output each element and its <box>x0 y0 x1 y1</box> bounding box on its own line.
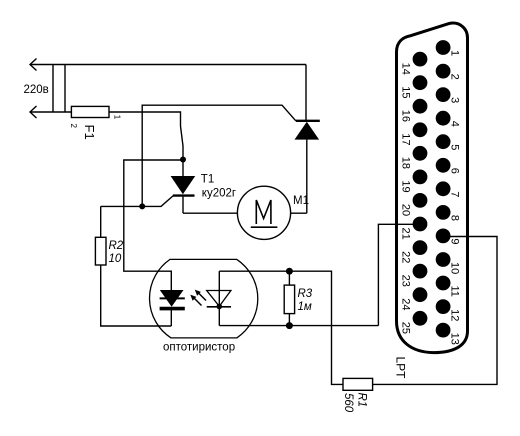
node: R3 top <box>286 268 293 275</box>
thyristor V2 (top) <box>295 121 320 213</box>
pin number labels right column <box>448 50 460 345</box>
svg-text:14: 14 <box>400 63 412 75</box>
svg-text:13: 13 <box>448 333 460 345</box>
svg-text:11: 11 <box>448 286 460 297</box>
svg-text:18: 18 <box>400 157 412 169</box>
svg-text:19: 19 <box>400 180 412 192</box>
svg-text:1: 1 <box>112 115 121 120</box>
svg-text:10: 10 <box>448 262 460 274</box>
wire <box>373 237 497 385</box>
resistor R1 <box>343 378 373 390</box>
wire <box>219 325 378 327</box>
svg-text:ку202г: ку202г <box>202 187 236 199</box>
svg-text:2: 2 <box>69 124 78 129</box>
svg-text:8: 8 <box>448 215 460 221</box>
svg-text:10: 10 <box>109 253 122 265</box>
node: gate junction <box>139 203 145 209</box>
resistor R2 <box>95 206 106 265</box>
svg-text:2: 2 <box>448 74 460 80</box>
svg-text:7: 7 <box>448 191 460 197</box>
svg-text:22: 22 <box>400 251 412 263</box>
svg-text:24: 24 <box>400 298 412 310</box>
pins 14-25 <box>413 52 428 326</box>
node: LED cathode <box>217 304 223 310</box>
plug connector line 2 <box>64 65 66 113</box>
wire <box>30 111 71 113</box>
svg-text:R1: R1 <box>356 393 368 408</box>
light arrow 1 <box>195 290 206 301</box>
node: T1 anode junction <box>180 157 186 163</box>
wire <box>109 112 183 176</box>
wire <box>289 271 343 384</box>
svg-text:R2: R2 <box>109 240 124 252</box>
mains terminal arrow bottom <box>30 106 37 118</box>
svg-text:оптотиристор: оптотиристор <box>163 342 235 354</box>
LED (right element) <box>207 271 231 325</box>
svg-text:15: 15 <box>400 86 412 98</box>
wire <box>291 212 307 214</box>
svg-text:17: 17 <box>400 133 412 145</box>
svg-text:20: 20 <box>400 204 412 216</box>
svg-text:5: 5 <box>448 144 460 150</box>
svg-text:560: 560 <box>342 393 354 413</box>
wire <box>219 270 289 272</box>
wire <box>183 212 238 214</box>
svg-text:R3: R3 <box>298 288 313 300</box>
wire <box>30 64 306 66</box>
pin number labels left column <box>400 63 412 334</box>
fuse F1 <box>71 106 109 117</box>
wire <box>305 65 307 121</box>
photothyristor (left element) <box>160 290 185 326</box>
svg-text:4: 4 <box>448 121 460 127</box>
svg-text:9: 9 <box>448 238 460 244</box>
wire: T1 gate <box>101 196 174 207</box>
light arrow 2 <box>190 295 201 306</box>
plug connector line 1 <box>52 65 54 113</box>
node: R3 bottom <box>286 322 293 329</box>
svg-text:F1: F1 <box>82 125 97 140</box>
svg-text:16: 16 <box>400 110 412 122</box>
thyristor T1 <box>171 176 196 213</box>
wire <box>378 224 420 325</box>
svg-text:LPT: LPT <box>394 357 408 380</box>
svg-text:220в: 220в <box>24 84 49 96</box>
svg-text:T1: T1 <box>201 173 214 185</box>
svg-text:23: 23 <box>400 275 412 287</box>
svg-text:6: 6 <box>448 168 460 174</box>
wire <box>124 160 183 290</box>
optothyristor body <box>150 259 258 338</box>
pins 1-13 <box>436 40 451 337</box>
wire <box>101 265 172 326</box>
wire <box>142 105 296 206</box>
motor M1 <box>237 186 290 239</box>
svg-text:12: 12 <box>448 309 460 321</box>
svg-text:3: 3 <box>448 97 460 103</box>
svg-text:M1: M1 <box>293 195 309 207</box>
resistor R3 <box>284 271 294 325</box>
svg-text:1: 1 <box>448 50 460 56</box>
connector LPT shell <box>397 23 468 353</box>
svg-text:1м: 1м <box>298 301 312 313</box>
svg-text:21: 21 <box>400 228 412 240</box>
mains terminal arrow top <box>30 59 37 71</box>
svg-text:25: 25 <box>400 322 412 334</box>
